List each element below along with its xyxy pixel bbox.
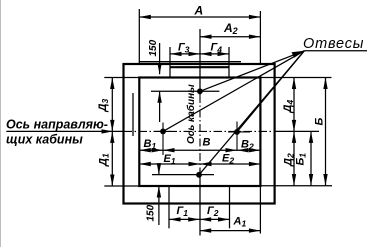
right plumb point [234,129,240,135]
guide axis line (horizontal) [6,130,319,132]
В row dimension line [139,149,260,151]
svg-text:щих кабины: щих кабины [6,133,83,147]
cabin axis centerline (vertical) [199,29,201,236]
dimension Г2 extension line [229,186,231,228]
dimension Б [325,78,327,186]
left wall bracket line [132,93,134,136]
svg-text:Г2: Г2 [207,205,219,218]
outer shaft wall [124,64,275,204]
left plumb point [160,129,166,135]
svg-text:В2: В2 [241,139,254,152]
axis leader arrowhead [102,129,114,133]
dimension 150 bottom [158,165,160,175]
svg-text:Ось кабины: Ось кабины [185,84,197,144]
dimension Г3 extension line [169,47,171,78]
svg-text:А2: А2 [223,21,238,36]
svg-text:Г4: Г4 [211,42,223,55]
dimension A extension right [259,11,261,64]
dimension Д4 [293,78,295,132]
plumb suspension beam body [170,66,230,68]
svg-text:А1: А1 [233,216,247,229]
reference line under Отвесы [304,50,367,52]
leader to top plumb [200,51,304,92]
dimension Д1 [111,131,113,186]
svg-text:150: 150 [146,204,157,221]
dimension line А1 [200,230,261,232]
svg-text:Д1: Д1 [98,153,111,167]
inner shaft wall [139,78,260,187]
dimension line Г3 [170,53,200,55]
svg-text:Б: Б [314,118,326,126]
inner bottom edge left extension [104,185,139,187]
dimension Г4 extension line [228,47,230,78]
dimension line Г2 [200,218,230,220]
dimension Д2 [293,131,295,185]
svg-text:Г3: Г3 [178,42,190,55]
dimension 150 top [159,43,161,74]
top plumb row line [151,90,219,92]
leader to bottom plumb [199,51,304,175]
svg-text:Д3: Д3 [97,99,110,113]
dimension line Г4 [200,53,229,55]
svg-text:Е1: Е1 [164,153,176,166]
svg-text:Е2: Е2 [222,153,234,166]
svg-text:150: 150 [148,39,159,56]
dimension line А2 [200,36,260,38]
leader arrowhead [292,51,305,58]
leader to right plumb [237,51,304,132]
svg-text:В: В [203,137,211,149]
dimension Д3 [111,78,113,132]
svg-text:В1: В1 [144,138,157,151]
plumb suspension beam top edge [139,61,241,63]
scan edge artifact [0,0,2,247]
inner top edge right extension [260,77,331,79]
dimension Г1 extension line [168,186,170,228]
dimension line Г1 [169,218,200,220]
svg-text:Б1: Б1 [295,153,308,166]
svg-text:Ось направляю-: Ось направляю- [6,118,108,132]
Е row dimension line [139,163,260,165]
А1 right extension [259,186,261,234]
svg-text:А: А [194,4,204,18]
dimension A extension left [138,9,140,64]
bottom plumb point [196,172,202,178]
svg-text:Д4: Д4 [282,100,295,114]
dimension line A [139,16,260,18]
inner top edge left extension [104,77,139,79]
svg-text:Г1: Г1 [177,205,189,218]
svg-text:Отвесы: Отвесы [303,36,364,52]
top plumb point [197,88,203,94]
leader to left plumb [163,51,304,132]
dimension Б1 [310,131,312,185]
bottom plumb row line [152,174,214,176]
inner bottom edge right extension [260,185,332,187]
